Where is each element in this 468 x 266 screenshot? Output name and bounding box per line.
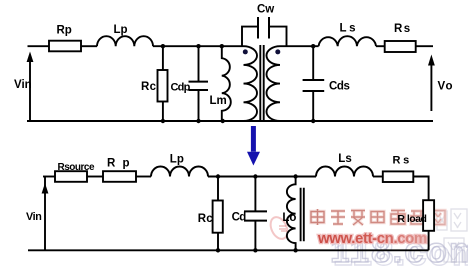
svg-text:Lp: Lp	[170, 154, 184, 166]
svg-text:Cdp: Cdp	[171, 82, 191, 94]
svg-text:Cds: Cds	[329, 81, 350, 93]
svg-text:R p: R p	[107, 158, 132, 170]
svg-text:Vin: Vin	[14, 79, 32, 91]
svg-text:Ls: Ls	[340, 23, 359, 35]
svg-text:www.ett-cn.com: www.ett-cn.com	[317, 230, 427, 247]
svg-text:R load: R load	[397, 213, 426, 225]
svg-text:Lo: Lo	[282, 212, 296, 224]
svg-text:Rp: Rp	[57, 25, 72, 37]
svg-text:Rc: Rc	[141, 81, 157, 93]
svg-text:Vo: Vo	[438, 81, 454, 93]
svg-text:R s: R s	[393, 154, 410, 166]
svg-text:Lm: Lm	[210, 95, 227, 107]
svg-text:Rc: Rc	[198, 213, 214, 225]
svg-text:Cd: Cd	[232, 212, 247, 224]
svg-text:Ls: Ls	[338, 153, 351, 165]
svg-text:Rsource: Rsource	[58, 162, 95, 173]
svg-text:Cw: Cw	[257, 3, 274, 15]
svg-text:Vin: Vin	[26, 211, 41, 223]
svg-text:Lp: Lp	[114, 24, 128, 36]
svg-text:Rs: Rs	[394, 23, 412, 35]
